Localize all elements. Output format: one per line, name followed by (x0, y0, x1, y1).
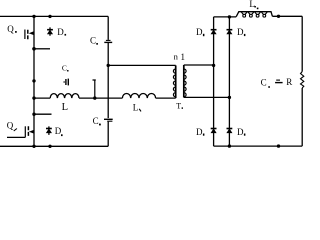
svg-text:C: C (62, 64, 67, 73)
wire rectifier leg 1 (D3/D5) (213, 17, 215, 146)
label D5 (196, 127, 204, 137)
wire top-left rail (0, 15, 108, 17)
wire mid horizontal to transformer primary bottom (156, 97, 176, 99)
capacitor C2 plates (104, 119, 113, 121)
transistor Q1 arrow (29, 31, 34, 35)
wire Q2 gate lead (7, 136, 25, 138)
inductor Lo loop circles (243, 14, 246, 17)
node Co top (277, 15, 280, 18)
label Q1 (7, 24, 17, 34)
svg-text:D: D (55, 126, 62, 136)
wire stub node A (Q1 source / D1 anode) (34, 48, 50, 50)
svg-text:Q: Q (7, 120, 14, 130)
label C2 (93, 116, 101, 126)
node stub A (32, 47, 36, 51)
node bus top (32, 15, 35, 18)
label D4 (237, 27, 245, 37)
wire mid vertical branch upper (to C1) (107, 16, 109, 40)
node secondary bottom to leg2 (228, 96, 231, 99)
transformer T secondary winding bumps (184, 69, 186, 97)
transformer T secondary winding vertical (183, 65, 185, 97)
inductor Lo loop 1 (241, 12, 247, 14)
transistor Q2 arrow (29, 130, 34, 134)
label Lr series (133, 102, 141, 112)
inductor Lr (series resonant coil) (122, 94, 155, 99)
diode D1 (antiparallel, floating symbol) (47, 27, 53, 35)
inductor L (tank coil) (50, 94, 79, 99)
wire bottom-left rail (0, 145, 108, 147)
wire main mid horizontal left segment (34, 97, 50, 99)
node tank coil branch (32, 96, 35, 99)
svg-text:L: L (133, 102, 139, 112)
diode D5 (rectifier bottom-left) (211, 129, 217, 133)
label C tank (62, 64, 69, 73)
resistor R zigzag (301, 72, 304, 89)
wire right vertical lower (R to bottom rail) (301, 88, 303, 146)
node leg2 top (228, 15, 231, 18)
label Co (261, 78, 270, 88)
capacitor Co plates (output, floating) (275, 80, 283, 83)
wire bridge bottom rail (214, 145, 303, 147)
label T (176, 102, 183, 111)
wire top-right rail to corner (272, 15, 302, 17)
label n:1 (174, 52, 185, 62)
transformer T primary winding vertical (175, 65, 177, 98)
svg-text:D: D (237, 27, 244, 37)
transistor Q2 (MOSFET symbol) (7, 126, 28, 137)
wire secondary top lead (184, 64, 214, 66)
svg-text:D: D (57, 27, 64, 37)
svg-text:C: C (93, 116, 99, 126)
svg-text:T: T (176, 102, 181, 111)
node Co bottom (277, 144, 280, 147)
label Lo (249, 0, 258, 9)
svg-text:L: L (62, 102, 68, 113)
wire right vertical upper (to load R) (301, 16, 303, 71)
label D3 (196, 27, 204, 37)
wire bridge top rail (214, 16, 237, 18)
svg-text:D: D (196, 127, 203, 137)
wire secondary bottom lead (184, 96, 230, 98)
svg-text:n: n (174, 52, 179, 62)
node D1 cathode on rail (48, 15, 51, 18)
node D2 anode on rail (48, 145, 51, 148)
node stub B (32, 113, 35, 116)
wire left bus (Q1/Q2 leg) (33, 16, 35, 146)
wire mid vertical branch middle (C1 to C2) (107, 43, 109, 118)
diode D6 (rectifier bottom-right) (227, 129, 233, 133)
node bus bottom (32, 145, 35, 148)
node leg2 bottom (228, 144, 231, 147)
inductor Lo loop 2 (248, 12, 254, 14)
wire rectifier leg 2 (D4/D6) (228, 17, 230, 146)
label C1 (90, 36, 98, 46)
node tank output (93, 96, 96, 99)
inductor Lo loop 3 (255, 12, 261, 14)
capacitor C1 plates (104, 40, 112, 42)
svg-text:C: C (90, 36, 96, 46)
wire stub node B (Q2 drain / D2 cathode) (34, 113, 52, 115)
inductor Lo top line (236, 12, 272, 17)
svg-text:1: 1 (181, 52, 186, 62)
label D2 (55, 126, 63, 136)
wire primary top lead (node to transformer) (108, 64, 176, 66)
transistor Q1 (MOSFET symbol) (25, 30, 28, 40)
wire mid vertical branch lower (C2 to bottom rail) (107, 122, 109, 147)
diode D2 (antiparallel, floating symbol) (46, 126, 52, 134)
transformer T primary winding bumps (173, 69, 175, 97)
svg-text:Q: Q (7, 24, 14, 34)
svg-text:D: D (196, 27, 203, 37)
diode D4 (rectifier top-right) (227, 30, 233, 34)
capacitor C tank plates (63, 79, 68, 86)
diode D3 (rectifier top-left) (211, 30, 217, 34)
wire mid horizontal between coils (79, 97, 122, 99)
label D6 (237, 127, 245, 137)
inductor Lo loop 4 (261, 12, 267, 14)
node tank cap branch (32, 79, 35, 82)
svg-text:D: D (237, 127, 244, 137)
node primary top (107, 64, 110, 67)
wire tank cap right lead with corner (93, 80, 96, 98)
svg-text:L: L (249, 0, 255, 9)
label Q2 (7, 120, 17, 131)
node secondary top to leg1 (212, 64, 215, 67)
svg-text:R: R (286, 77, 292, 87)
svg-text:C: C (261, 78, 267, 88)
label D1 (57, 27, 66, 37)
